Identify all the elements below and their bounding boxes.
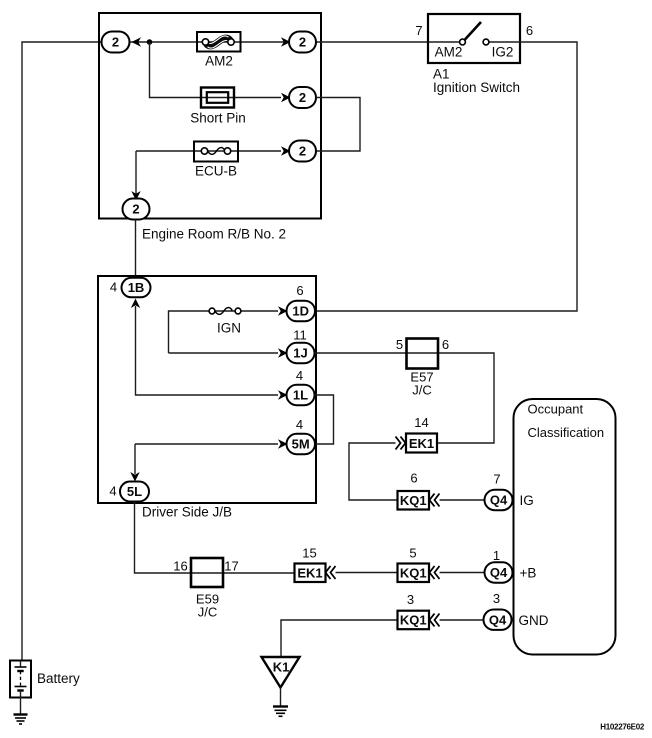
wire 1J to E57: [315, 352, 407, 354]
connector EK1 (14): [406, 434, 437, 453]
connector KQ1 (6): [398, 491, 430, 510]
wire AM2 row: [102, 41, 429, 43]
connector oval 2 (right, AM2 row): [289, 32, 316, 53]
svg-text:5M: 5M: [292, 437, 310, 452]
svg-text:Q4: Q4: [490, 493, 508, 508]
svg-text:J/C: J/C: [412, 383, 432, 398]
fuse IGN: [215, 308, 233, 315]
wire EK1 14 to KQ1 6: [349, 443, 398, 500]
svg-text:Q4: Q4: [489, 612, 507, 627]
svg-text:KQ1: KQ1: [400, 493, 427, 508]
chevrons into KQ1 3: [430, 614, 440, 627]
junction connector E59 J/C: [191, 558, 223, 587]
arrow into 2 (ECU-B row): [281, 146, 291, 156]
ignition switch A1 box: [428, 14, 520, 63]
arrow into right 2 (AM2 row): [281, 37, 291, 47]
svg-text:2: 2: [299, 90, 306, 105]
connector KQ1 (3): [398, 611, 430, 630]
wire through E57 to EK1 14: [407, 353, 495, 443]
svg-text:1D: 1D: [292, 304, 309, 319]
svg-text:6: 6: [526, 23, 533, 38]
wire engine room bottom 2 to 1B: [135, 220, 137, 279]
svg-text:Short Pin: Short Pin: [190, 110, 246, 125]
svg-text:Classification: Classification: [528, 425, 605, 440]
arrow into 5M: [278, 439, 288, 449]
wire 5M down to 5L: [134, 444, 136, 474]
svg-text:IGN: IGN: [217, 320, 241, 335]
ground symbol (K1): [273, 707, 288, 717]
wire IG2 to 1D: [315, 42, 578, 311]
junction connector E57 J/C: [407, 339, 439, 369]
junction block Driver Side J/B: [98, 276, 316, 503]
wire through E59 to EK1 15: [191, 572, 295, 574]
svg-text:1B: 1B: [128, 280, 145, 295]
svg-text:+B: +B: [520, 565, 537, 580]
connector oval Q4 (GND): [484, 610, 512, 630]
wire IGN row: [169, 311, 279, 353]
wire loop 1L to 5M: [315, 395, 334, 444]
svg-text:Engine Room R/B No. 2: Engine Room R/B No. 2: [142, 227, 286, 242]
battery: [10, 661, 31, 698]
svg-text:3: 3: [407, 592, 414, 607]
arrow into 2 (short pin row): [281, 93, 291, 103]
junction block Engine Room R/B No. 2: [99, 13, 321, 219]
wire battery to ground: [20, 698, 22, 715]
wire K1 to ground: [280, 688, 282, 707]
svg-text:1L: 1L: [293, 388, 308, 403]
connector oval 1J: [287, 343, 315, 363]
svg-text:1J: 1J: [293, 346, 307, 361]
svg-text:3: 3: [493, 591, 500, 606]
wire short pin row: [150, 42, 282, 98]
svg-text:17: 17: [224, 559, 238, 574]
svg-text:6: 6: [410, 471, 417, 486]
svg-text:AM2: AM2: [435, 44, 463, 59]
svg-text:6: 6: [442, 337, 449, 352]
arrow into left 2: [132, 37, 142, 47]
svg-text:IG: IG: [520, 493, 534, 508]
wire 5L to E59: [135, 502, 192, 574]
svg-text:2: 2: [112, 35, 119, 50]
connector oval 2 (short pin row): [289, 87, 316, 108]
arrow down into 5L: [130, 472, 139, 482]
wire EK1 15 to KQ1 5: [336, 572, 398, 574]
connector oval 2 (ECU-B row): [289, 141, 316, 162]
ground point K1: [262, 657, 300, 688]
svg-text:J/C: J/C: [198, 605, 218, 620]
switch lever: [465, 22, 482, 40]
connector oval Q4 (+B): [485, 562, 513, 582]
svg-text:K1: K1: [273, 660, 290, 675]
svg-text:4: 4: [110, 280, 117, 295]
arrow into 1D: [278, 306, 288, 316]
svg-text:2: 2: [132, 202, 139, 217]
svg-text:Ignition Switch: Ignition Switch: [433, 80, 520, 95]
svg-text:2: 2: [299, 144, 306, 159]
wire battery to engine room R/B (left vertical): [22, 42, 102, 661]
arrow into 1L: [278, 390, 288, 400]
short pin symbol: [201, 88, 234, 108]
wire KQ1 6 to Q4 7: [440, 499, 485, 501]
connector oval 5L: [120, 482, 149, 502]
ground symbol (battery): [14, 715, 28, 725]
arrow into 1J: [278, 348, 288, 358]
wire loop short pin to ECU-B: [316, 98, 360, 152]
svg-text:4: 4: [296, 417, 303, 432]
svg-text:ECU-B: ECU-B: [195, 163, 237, 178]
svg-text:Occupant: Occupant: [528, 402, 584, 417]
arrow down into bottom 2: [131, 191, 140, 201]
wire KQ1 3 to Q4 3: [440, 619, 485, 621]
svg-text:AM2: AM2: [205, 53, 233, 68]
svg-text:IG2: IG2: [492, 44, 514, 59]
ECU Occupant Classification: [514, 399, 616, 655]
fusible link AM2: [197, 32, 241, 52]
chevrons into EK1 15: [326, 566, 336, 579]
svg-text:Q4: Q4: [490, 565, 508, 580]
wire 1J row: [169, 352, 279, 354]
connector oval Q4 (IG): [485, 490, 513, 510]
svg-text:H102276E02: H102276E02: [600, 723, 645, 732]
svg-text:16: 16: [173, 559, 187, 574]
connector oval 1B: [122, 278, 151, 298]
switch contacts: [428, 41, 460, 43]
svg-text:15: 15: [302, 546, 316, 561]
svg-text:Battery: Battery: [37, 671, 80, 686]
connector oval 1D: [287, 301, 316, 322]
svg-text:4: 4: [296, 368, 303, 383]
svg-text:EK1: EK1: [297, 566, 322, 581]
svg-text:2: 2: [299, 35, 306, 50]
svg-text:5L: 5L: [127, 484, 142, 499]
chevrons into KQ1 6: [430, 494, 440, 507]
chevrons into KQ1 5: [430, 566, 440, 579]
wire KQ1 5 to Q4 1: [440, 572, 485, 574]
svg-text:Driver Side J/B: Driver Side J/B: [142, 504, 232, 519]
svg-text:GND: GND: [519, 613, 549, 628]
svg-text:6: 6: [296, 283, 303, 298]
svg-text:5: 5: [396, 337, 403, 352]
connector EK1 (15): [295, 564, 326, 583]
connector oval 2 (bottom of engine room R/B): [123, 199, 150, 220]
svg-text:KQ1: KQ1: [400, 613, 427, 628]
svg-text:7: 7: [415, 23, 422, 38]
arrow up into 1B: [131, 299, 140, 309]
connector oval 1L: [287, 385, 315, 405]
chevrons into EK1 14: [396, 437, 406, 450]
connector oval 2 (left, AM2 row): [102, 32, 130, 53]
wire 5M row: [135, 443, 278, 445]
wire 1B bus down to 1L row: [136, 306, 279, 395]
connector oval 5M: [287, 434, 316, 454]
svg-text:1: 1: [493, 548, 500, 563]
wire ECU-B row: [136, 150, 281, 152]
wire K1 to KQ1 3: [281, 620, 398, 657]
svg-text:11: 11: [293, 328, 307, 343]
svg-text:5: 5: [409, 546, 416, 561]
junction dot: [147, 39, 153, 45]
svg-text:4: 4: [109, 484, 116, 499]
svg-text:14: 14: [414, 415, 428, 430]
connector KQ1 (5): [398, 564, 430, 583]
svg-text:7: 7: [493, 472, 500, 487]
fuse ECU-B: [194, 142, 238, 162]
svg-text:KQ1: KQ1: [400, 566, 427, 581]
wire ECU-B to bottom 2: [135, 151, 137, 198]
svg-text:EK1: EK1: [409, 436, 434, 451]
